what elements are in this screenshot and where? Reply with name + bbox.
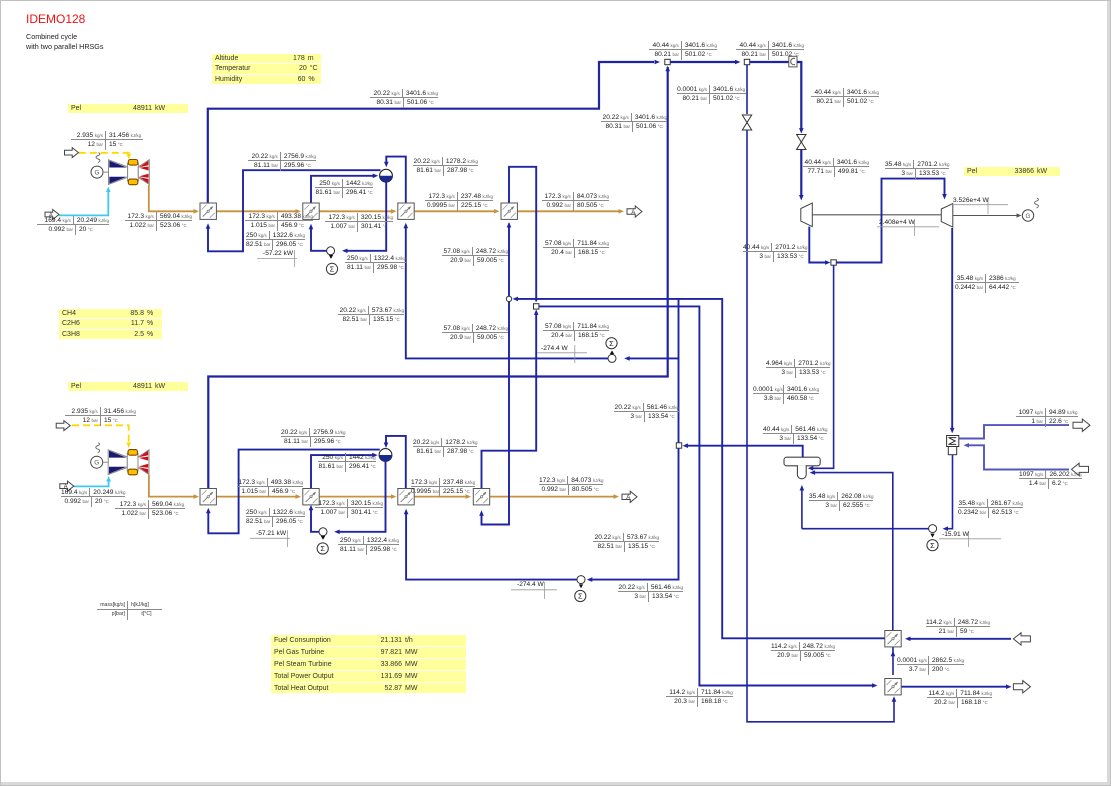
label 20.22/573.67 [593,533,659,552]
HP steam turbine [801,203,813,227]
wire DH condensate return riser [892,529,894,631]
node feedwater split [676,443,681,448]
label 20.22/3401.6 [601,113,667,132]
svg-text:Σ: Σ [578,592,583,601]
label 114.2/248.72 [771,642,834,661]
label 57.08/711.84 [543,239,609,258]
label 250/1322.6 [246,508,303,527]
label -15.91 W [942,531,969,538]
district heat outlet arrow [1013,681,1030,693]
steam turbine power box [964,167,1060,177]
label 114.2/711.84 [666,688,733,707]
label 2.935/31.456 [65,407,136,426]
leader 2.408e+4 W [877,226,939,228]
leader 3.526e+4 W [951,204,1008,206]
wire steam to HP turbine [800,150,802,198]
shaft LP-generator [953,215,1017,217]
label 57.08/248.72 [442,247,508,266]
heat exchanger HX2b evaporator HRSG2 [303,489,319,505]
svg-text:Σ: Σ [609,339,614,348]
air inlet A GT2 [60,481,74,491]
circulation pump C2 [319,528,327,536]
label 57.08/248.72 [442,324,508,343]
link C1 motor [329,255,333,259]
wire deaerator outlet header [685,446,803,458]
GT2 power box [68,382,188,392]
valve V1 leak-off [742,115,751,130]
label -57.21 kW [256,530,286,537]
generator of gas turbine GT1 [91,166,103,178]
svg-text:G: G [95,170,100,177]
label 2.935/31.456 [71,131,143,150]
label 20.22/2756.9 [248,152,316,171]
wire feed pump 1 discharge [406,226,608,359]
heat exchanger HX1 superheater HRSG1 [200,203,216,219]
terminal of gas turbine GT2 [96,443,100,453]
label 20.22/573.67 [338,306,404,325]
condensate pump P3 [929,525,937,533]
label 0.0001/2862.5 [897,656,963,675]
label 40.44/561.46 [763,425,827,444]
wire HP steam HRSG1 to header [208,62,654,203]
wire saturated steam D2 to superheater [208,450,379,534]
wire air intake GT2 [73,480,108,487]
label 172.3/493.38 [237,478,303,497]
condenser [947,436,959,455]
leader -57.21 kW [250,537,290,539]
wire steam header to measuring unit [750,61,789,63]
stack outlet A top [627,206,642,217]
legend table [97,601,162,620]
heat exchanger HX4b condensate preheater HRSG2 [473,489,489,505]
label 40.44/3401.6 [736,41,804,60]
wire HX5 outlet to mixing node [509,167,536,302]
leader -15.91 W [939,538,1001,540]
terminal of ST generator [1035,198,1039,208]
label 35.48/2701.2 [885,160,949,179]
wire flue gas duct 2b [319,496,392,498]
feed pump P2 [577,576,585,584]
link C2 motor [321,536,325,540]
air inlet A GT1 [45,210,59,220]
wire economizer outlet to D1 [386,157,406,203]
valve V2 HP admission [797,135,806,150]
link P2 motor [579,584,583,588]
wire flue gas duct 1d [517,210,620,212]
label 1097/26.202 [1019,470,1081,489]
deaerator / feedwater tank [784,457,820,479]
title [26,12,85,26]
cooling water inlet arrow [1072,463,1089,475]
label 114.2/711.84 [927,689,992,708]
label 169.4/20.249 [37,216,109,235]
results box [271,635,466,694]
terminal of gas turbine GT1 [96,153,100,163]
svg-text:A: A [626,495,630,501]
motor of C2 [317,543,328,554]
label 40.44/3401.6 [811,88,879,107]
node condensate split [506,296,511,301]
wire flue gas duct 1a [216,210,297,212]
wire fuel line GT2 [72,425,129,445]
svg-text:Σ: Σ [930,541,935,550]
label 40.44/3401.6 [649,41,717,60]
heat exchanger DH heater HXb [885,679,901,695]
node heated condensate mix [534,304,539,309]
wire DH supply outlet [901,686,1008,688]
label 172.3/320.15 [325,213,393,232]
wire HX4b outlet riser [482,312,537,489]
wire steam to HP valve [797,62,801,131]
compressor of gas turbine GT2 [108,450,127,475]
shaft of gas turbine GT2 [103,461,150,463]
wire leak line down to DH heater [747,130,894,722]
heat exchanger HX1b superheater HRSG2 [200,489,216,505]
wire GT1 exhaust duct [149,185,194,211]
label -274.4 W [541,345,568,352]
label 57.08/711.84 [543,322,609,341]
wire condensate into HX4b [482,302,510,525]
cooling water outlet arrow [1073,419,1090,431]
heat exchanger HX4 condensate preheater HRSG1 [501,203,517,219]
heat exchanger HX3 economizer HRSG1 [398,203,414,219]
wire feed pump 1 suction tee [628,357,679,359]
subtitle [26,32,104,53]
wire feedwater to HRSG2 feed pump [590,448,679,579]
label 3.526e+4 W [953,197,989,204]
wire evaporator riser to D2 [311,455,375,489]
svg-text:Σ: Σ [330,265,335,274]
node HP exhaust split [831,260,836,265]
label 172.3/84.073 [542,192,609,211]
label 35.48/262.08 [809,492,873,511]
label 169.4/20.249 [61,488,125,507]
wire evaporator riser to D1 [311,176,375,203]
label 35.48/261.67 [958,499,1023,518]
label 172.3/569.04 [125,212,192,231]
heat exchanger DH heater HXa [885,631,901,647]
wire condensate pump discharge [802,528,929,530]
steam drum D1 [380,169,393,182]
label 172.3/569.04 [115,500,185,519]
label 20.22/561.46 [614,403,679,422]
motor of P3 [927,540,938,551]
compressor of gas turbine GT1 [109,160,128,185]
circulation pump C1 [327,247,335,255]
label 20.22/2756.9 [281,428,343,447]
label 250/1322.4 [338,536,399,555]
label -57.22 kW [263,250,293,257]
measuring unit M1 [789,56,797,67]
wire condensate to deaerator sparger [801,488,803,529]
district heat inlet arrow [1013,633,1030,645]
motor of P1 [606,338,617,349]
label 35.48/2386 [955,274,1019,293]
wire DH supply inlet [909,638,1012,640]
wire flue gas duct 1c [414,210,495,212]
label 250/1442 [315,179,373,198]
svg-text:G: G [94,460,99,467]
label 2.408e+4 W [879,219,915,226]
label 20.22/1278.2 [413,157,478,176]
turbine of gas turbine GT2 [138,450,149,475]
wire air intake GT1 [59,190,108,215]
label 40.44/3401.6 [803,158,869,177]
wire condensate from hotwell [946,455,953,529]
GT1 power box [68,104,188,114]
wire feed pump 2 discharge [406,512,577,580]
wire cooling water inlet [967,445,1069,469]
node steam header junction 2 [744,59,749,64]
wire flue gas duct 2a [216,496,297,498]
wire DH heater interconnection [892,647,894,675]
shaft HP-LP [812,214,941,216]
link P1 motor [610,350,614,354]
turbine of gas turbine GT1 [138,160,149,185]
ambient conditions box [212,54,321,85]
label 250/1442 [318,453,376,472]
leader -57.22 kW [257,258,297,260]
label 0.0001/3401.6 [753,385,817,404]
wire leak line from node 2 [746,65,748,114]
wire flue gas duct 2d [490,496,615,498]
label 114.2/248.72 [926,618,990,637]
wire HP exhaust [809,227,827,263]
label 172.3/320.15 [315,499,383,518]
wire LP exhaust to condenser [951,228,953,430]
wire crossover to LP turbine [836,179,944,263]
wire cooling water outlet [959,425,1069,438]
wire condensate riser to deaerator [813,473,893,529]
fuel composition box [59,309,162,340]
fuel inlet arrow GT2 [56,421,70,431]
node steam header junction 1 [665,59,670,64]
wire steam header to node 2 [670,61,735,63]
label 1097/94.89 [1016,408,1078,427]
label 20.22/3401.6 [370,89,438,108]
label 20.22/1278.2 [413,438,477,457]
leader -274.4 W top [537,352,587,354]
steam drum D2 [379,449,392,462]
wire flue gas duct 2c [414,496,467,498]
label 40.44/2701.2 [743,243,807,262]
wire C1 to evaporator HX2 [311,227,327,251]
heat exchanger HX2 evaporator HRSG1 [303,203,319,219]
link P3 motor [930,534,934,538]
wire extraction to deaerator [811,265,834,468]
LP steam turbine [941,204,953,228]
label 172.3/493.38 [245,212,313,231]
motor of C1 [326,263,337,274]
generator of steam turbine [1022,210,1033,221]
fuel inlet arrow GT1 [65,148,79,158]
wire feedwater to HRSG1 feed pump [678,298,680,442]
label 4.964/2701.2 [766,359,829,378]
wire flue gas duct 1b [319,210,392,212]
label 172.3/237.48 [425,192,493,211]
label 20.22/561.46 [618,583,683,602]
combustion chamber of gas turbine GT1 [128,160,139,185]
wire D2 downcomer [337,461,386,532]
wire GT2 exhaust duct [149,475,194,497]
label 250/1322.4 [345,254,406,273]
wire saturated steam D1 to superheater [208,170,381,251]
svg-text:Σ: Σ [320,544,325,553]
shaft of gas turbine GT1 [103,171,150,173]
generator of gas turbine GT2 [91,456,103,468]
wire condensate into HX5 gas preheater [508,224,510,297]
feed pump P1 [608,354,616,362]
leader -274.4 W bottom [511,589,557,591]
wire C2 to evaporator HX2b [311,508,319,532]
label 172.3/84.073 [539,476,602,495]
wire fuel line GT1 [79,153,129,157]
wire HP steam HRSG2 riser [208,67,667,489]
wire heated condensate main [539,306,874,685]
label 0.0001/3401.6 [677,85,746,104]
heat exchanger HX3b economizer HRSG2 [398,489,414,505]
label 250/1322.6 [246,231,303,250]
combustion chamber of gas turbine GT2 [127,450,138,475]
wire D1 downcomer [345,182,386,251]
label 172.3/237.48 [411,478,471,497]
wire DH water return main [515,299,885,638]
stack outlet A bottom [622,491,637,502]
motor of P2 [575,590,586,601]
label -274.4 W [517,581,544,588]
wire economizer outlet to D2 [386,436,406,489]
svg-text:G: G [1026,213,1031,220]
svg-text:A: A [631,210,635,216]
